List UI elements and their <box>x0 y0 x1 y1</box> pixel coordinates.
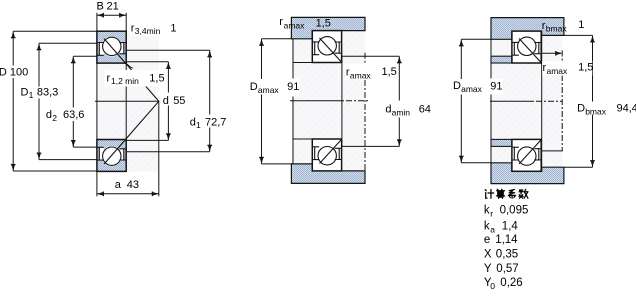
svg-text:94,4: 94,4 <box>617 103 636 115</box>
dimension line d with arrows <box>167 62 169 93</box>
svg-text:d: d <box>190 117 196 129</box>
svg-text:D: D <box>21 87 29 99</box>
label Dbmax 94,4 background right figure <box>576 102 636 115</box>
label Damax 91 background middle <box>286 79 300 97</box>
svg-text:1,5: 1,5 <box>316 17 331 29</box>
svg-text:1: 1 <box>578 19 584 31</box>
left figure bearing bottom cross-section <box>97 140 126 172</box>
chamfer leader r1,2 at inner ring corner <box>126 64 132 69</box>
dimension line Damax right <box>460 39 462 79</box>
svg-text:91: 91 <box>490 80 502 92</box>
svg-text:63,6: 63,6 <box>63 109 84 121</box>
svg-text:amax: amax <box>258 85 280 95</box>
svg-text:D: D <box>453 80 461 92</box>
svg-text:1: 1 <box>170 23 176 35</box>
svg-text:X: X <box>484 249 492 261</box>
svg-text:amin: amin <box>392 108 411 118</box>
svg-text:d: d <box>385 104 391 116</box>
svg-text:d: d <box>46 109 52 121</box>
svg-text:amax: amax <box>350 71 372 81</box>
svg-text:bmax: bmax <box>546 24 568 34</box>
dimension line D1 with arrows <box>38 43 40 86</box>
svg-text:0,57: 0,57 <box>496 263 518 275</box>
svg-text:a: a <box>490 224 495 234</box>
dimension line d1 with arrows <box>209 50 211 114</box>
extension lines for D1 <box>39 42 97 44</box>
svg-text:bmax: bmax <box>585 107 607 117</box>
extension lines for d1 <box>126 49 210 51</box>
svg-text:amax: amax <box>547 66 569 76</box>
dimension line B with arrows <box>97 14 126 16</box>
housing band bottom with shoulder and Db spacer right figure <box>491 163 564 184</box>
svg-text:d: d <box>163 95 169 107</box>
label r1,2min 1,5 background <box>105 70 167 87</box>
housing face line middle figure <box>364 53 366 65</box>
housing face line right figure <box>561 51 563 65</box>
dimension line Damax middle <box>261 39 263 79</box>
shaft shoulder top-left right figure <box>491 56 512 63</box>
svg-text:1,5: 1,5 <box>578 62 593 74</box>
svg-text:0,26: 0,26 <box>500 277 522 289</box>
spacer bore line with arrow top right figure <box>542 52 561 54</box>
table header 计算系数 (drawn strokes) <box>485 189 528 198</box>
svg-text:1: 1 <box>29 90 34 100</box>
dimension line a with arrows <box>97 193 159 195</box>
bearing right face line right figure <box>541 35 543 167</box>
right bearing top cross-section <box>512 31 541 63</box>
svg-text:72,7: 72,7 <box>205 117 226 129</box>
svg-text:1,4: 1,4 <box>502 220 519 232</box>
hatch region middle figure <box>292 31 365 171</box>
dimension line damin middle <box>398 56 400 100</box>
svg-text:43: 43 <box>127 179 139 191</box>
svg-text:r: r <box>279 16 283 28</box>
contact-angle lines meeting at load centre apex <box>104 39 159 164</box>
right bearing bottom cross-section <box>512 139 541 171</box>
svg-text:amax: amax <box>461 84 483 94</box>
extension lines Damax middle <box>262 38 294 40</box>
svg-text:64: 64 <box>419 103 431 115</box>
shaft shoulder bottom-left right figure <box>491 139 512 146</box>
spacer bore line bottom right figure <box>542 150 562 152</box>
svg-text:e: e <box>484 234 490 246</box>
svg-text:1,14: 1,14 <box>495 234 518 246</box>
svg-text:1,5: 1,5 <box>382 66 397 78</box>
svg-text:r: r <box>107 73 111 85</box>
svg-text:1,2 min: 1,2 min <box>111 76 139 86</box>
dimension line D with arrows <box>12 31 14 65</box>
housing band top with shoulder middle figure <box>291 17 365 38</box>
svg-text:r: r <box>490 208 493 218</box>
svg-text:a: a <box>115 179 122 191</box>
svg-text:k: k <box>484 204 490 216</box>
label r3,4min 1 background <box>130 23 178 36</box>
extension lines Damax right <box>461 38 491 40</box>
extension lines for bore d <box>126 61 168 63</box>
label ramax 1,5 background right figure <box>542 61 592 76</box>
label Damax 91 background right figure <box>489 79 503 95</box>
svg-text:Y: Y <box>484 263 492 275</box>
extension lines for width B <box>96 13 98 31</box>
bearing left face line <box>96 63 98 139</box>
svg-text:3,4min: 3,4min <box>135 26 161 36</box>
housing band top with shoulder and Db spacer right figure <box>491 18 564 40</box>
housing band bottom with shoulder middle figure <box>291 164 365 184</box>
svg-text:21: 21 <box>107 1 119 13</box>
svg-text:k: k <box>484 220 490 232</box>
svg-text:91: 91 <box>287 81 299 93</box>
hatch region right figure <box>491 31 562 171</box>
svg-text:1,5: 1,5 <box>149 73 164 85</box>
centre axis middle figure <box>290 100 344 102</box>
svg-text:0,35: 0,35 <box>496 249 518 261</box>
bearing right face line <box>125 63 127 139</box>
svg-text:55: 55 <box>173 95 185 107</box>
label ramax 1,5 right background middle <box>345 64 399 80</box>
svg-text:0: 0 <box>490 281 495 291</box>
dimension line Dbmax <box>592 35 594 101</box>
svg-text:2: 2 <box>52 113 57 123</box>
housing shoulder face line middle figure <box>292 39 294 79</box>
svg-text:0,095: 0,095 <box>500 204 529 216</box>
extension lines for a <box>96 171 98 196</box>
abutment face line left right figure <box>490 39 492 78</box>
shaft abutment face line middle figure <box>341 56 343 146</box>
extension lines for outer diameter D <box>13 30 97 32</box>
svg-text:100: 100 <box>10 66 28 78</box>
svg-text:83,3: 83,3 <box>37 87 58 99</box>
middle bearing top cross-section <box>312 31 341 63</box>
middle bearing bottom cross-section <box>312 139 341 171</box>
extension lines for d2 <box>73 55 97 57</box>
hatch region around left bearing section <box>97 31 159 171</box>
svg-text:D: D <box>250 81 258 93</box>
svg-text:D: D <box>577 103 585 115</box>
shaft surface lines middle figure <box>293 62 312 64</box>
centre axis of left bearing figure <box>95 100 159 102</box>
svg-text:1: 1 <box>196 120 201 130</box>
centre axis right figure <box>490 100 534 102</box>
svg-text:D: D <box>0 66 7 78</box>
svg-text:B: B <box>97 1 104 13</box>
extension lines Dbmax <box>564 34 593 36</box>
shaft shoulder diameter lines da middle figure <box>342 55 399 57</box>
dimension line d2 with arrows <box>72 56 74 107</box>
svg-text:amax: amax <box>284 20 306 30</box>
left figure bearing top cross-section <box>97 31 126 63</box>
